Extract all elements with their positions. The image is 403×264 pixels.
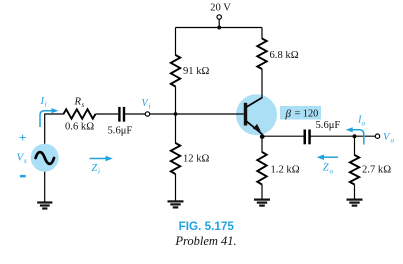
resistor Rs (64, 109, 96, 118)
resistor R2 12k (171, 143, 180, 174)
resistor RE 1.2k (257, 152, 266, 185)
svg-text:i: i (149, 103, 151, 111)
wire source top (45, 114, 64, 144)
capacitor C2 (304, 130, 311, 145)
current arrow Io (346, 127, 364, 144)
svg-text:o: o (330, 167, 334, 175)
wire right branch upper (261, 28, 263, 40)
svg-text:5.6μF: 5.6μF (108, 126, 133, 137)
node base junction (174, 112, 178, 116)
source highlight circle (31, 144, 59, 172)
wire C2 to Vo node (311, 135, 355, 137)
svg-text:o: o (391, 136, 395, 144)
svg-text:Z: Z (323, 163, 329, 174)
node output junction (353, 134, 357, 138)
wire to Vo terminal (355, 135, 376, 137)
node emitter junction (260, 134, 265, 139)
transistor Q1 (244, 98, 262, 138)
svg-text:12 kΩ: 12 kΩ (183, 154, 210, 165)
wire RL to ground (354, 185, 356, 199)
svg-text:6.8 kΩ: 6.8 kΩ (270, 50, 299, 61)
resistor RC 6.8k (257, 39, 266, 70)
ground under source (37, 201, 52, 209)
svg-text:= 120: = 120 (295, 109, 319, 120)
current arrow Ii (40, 108, 59, 127)
resistor RL 2.7k (350, 155, 359, 185)
svg-text:20 V: 20 V (210, 2, 231, 13)
ground under RL (347, 199, 363, 207)
svg-text:s: s (24, 157, 27, 165)
capacitor C1 (118, 107, 125, 122)
label minus (20, 175, 26, 178)
impedance arrow Zi (90, 156, 113, 162)
svg-text:Z: Z (92, 163, 98, 174)
wire C1 to Vi (125, 113, 145, 115)
svg-text:1.2 kΩ: 1.2 kΩ (271, 165, 300, 176)
wire Vi to base (150, 113, 244, 115)
transistor highlight circle (236, 94, 277, 135)
svg-text:o: o (362, 119, 366, 127)
svg-text:R: R (74, 97, 82, 108)
resistor R1 91k (171, 55, 180, 87)
wire emitter down (261, 136, 263, 152)
svg-text:i: i (98, 168, 100, 176)
wire left branch middle (175, 87, 177, 144)
label beta box (280, 106, 321, 120)
svg-text:91 kΩ: 91 kΩ (183, 66, 210, 77)
node Vi terminal (145, 112, 149, 116)
svg-text:s: s (82, 101, 85, 109)
wire 12k to ground (175, 174, 177, 201)
wire Rs to C1 (96, 113, 119, 115)
svg-text:i: i (45, 100, 47, 108)
supply 20V terminal (217, 15, 221, 30)
svg-text:I: I (40, 96, 45, 107)
svg-text:β: β (285, 108, 292, 120)
wire RE to ground (261, 185, 263, 199)
svg-text:0.6 kΩ: 0.6 kΩ (65, 122, 94, 133)
svg-text:+: + (19, 130, 26, 145)
svg-text:5.6μF: 5.6μF (316, 120, 341, 131)
wire left branch upper (175, 28, 177, 56)
wire source bottom (44, 172, 46, 202)
svg-text:FIG. 5.175: FIG. 5.175 (179, 220, 235, 233)
ground under 12k (168, 200, 184, 208)
wire top rail (176, 27, 263, 29)
wire RL down (354, 136, 356, 155)
impedance arrow Zo (317, 154, 338, 160)
svg-text:Problem 41.: Problem 41. (174, 234, 236, 248)
ground under RE (254, 199, 270, 207)
node Vo terminal (375, 134, 379, 138)
voltage source Vs (36, 152, 54, 164)
wire collector (261, 69, 263, 98)
svg-text:2.7 kΩ: 2.7 kΩ (362, 165, 391, 176)
wire emitter to C2 (262, 135, 304, 137)
